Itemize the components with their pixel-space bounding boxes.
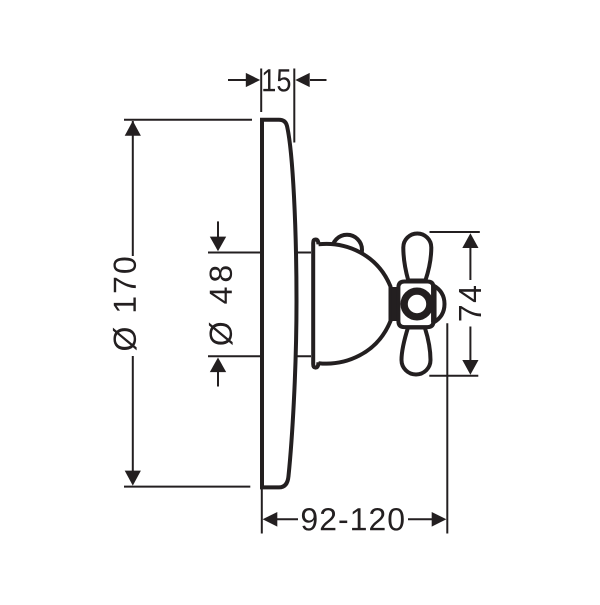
label Ø 170 [113, 258, 137, 351]
dim Ø48 bottom extension line [208, 355, 311, 357]
far lobe edge arc [434, 286, 445, 323]
dim 74 line upper [469, 247, 471, 280]
dim Ø48 top tail [217, 221, 219, 237]
dim 74 line lower [469, 327, 471, 361]
dim 92-120 line right [408, 518, 432, 520]
hub ring inner [406, 293, 428, 315]
label 15 [263, 69, 290, 91]
escutcheon plate (side view) [262, 120, 297, 488]
dim 15: left extension line [260, 69, 262, 113]
dome knob on top of handle bell [332, 235, 362, 265]
arrowhead 92-120 left [263, 512, 278, 527]
cross handle bottom lobe [402, 328, 431, 375]
arrowhead 15 left [246, 73, 260, 87]
arrowhead 92-120 right [432, 512, 447, 527]
dim 15: right tail [310, 79, 327, 81]
dim Ø170 line lower [132, 356, 134, 484]
dim Ø48 bottom tail [217, 372, 219, 387]
label 74 [459, 286, 481, 321]
arrowhead Ø170 bottom [125, 471, 141, 486]
dim Ø170 bottom extension [124, 486, 250, 488]
dim 74 bottom extension [429, 375, 478, 377]
sleeve flange [313, 240, 318, 368]
cross handle top lobe [403, 234, 431, 281]
label 92-120 [302, 508, 404, 531]
dim 92-120 right extension [446, 323, 448, 533]
handle bell outline [319, 244, 391, 364]
arrowhead Ø48 bottom (points up) [210, 358, 226, 373]
dim Ø170 line upper [132, 121, 134, 256]
arrowhead Ø170 top [125, 121, 141, 136]
hub ring outer [403, 290, 432, 319]
arrowhead 15 right [295, 73, 309, 87]
dim Ø48 top extension line [208, 252, 311, 254]
handle hub [398, 282, 433, 328]
dim Ø170 top extension [124, 119, 252, 121]
label Ø 48 [209, 266, 233, 345]
neck bar [391, 287, 397, 321]
dim 92-120 left extension [261, 489, 263, 534]
dim 15: left tail [228, 79, 247, 81]
dim 15: right extension line [293, 69, 295, 143]
arrowhead 74 top [462, 233, 478, 248]
handle bell fill [319, 244, 391, 364]
dim 74 top extension [430, 231, 480, 233]
dim 92-120 line left [277, 518, 299, 520]
arrowhead 74 bottom [462, 360, 478, 375]
arrowhead Ø48 top (points down) [210, 237, 226, 252]
hub right thick edge [431, 285, 437, 323]
